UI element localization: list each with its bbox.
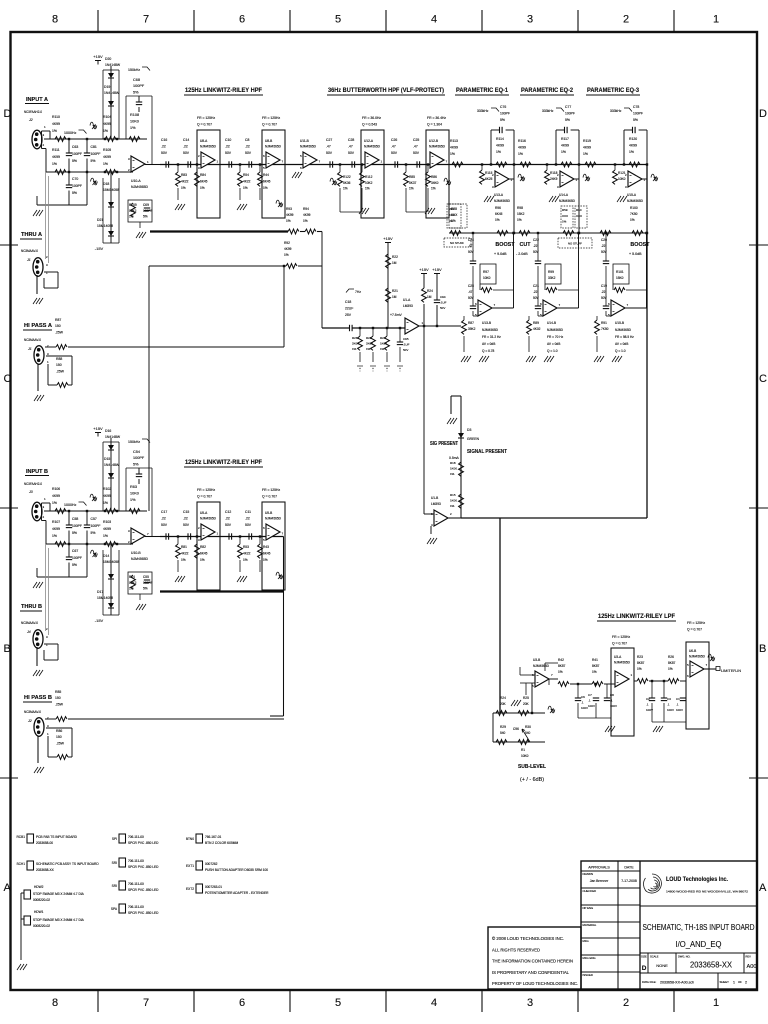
svg-text:1%: 1% — [630, 218, 635, 222]
svg-text:R96: R96 — [495, 206, 501, 210]
ground — [34, 767, 44, 773]
svg-text:AV = 0dB: AV = 0dB — [615, 342, 628, 346]
svg-text:.22: .22 — [245, 144, 250, 148]
svg-text:4K99: 4K99 — [561, 143, 569, 147]
svg-text:FR = 125Hz: FR = 125Hz — [612, 635, 630, 639]
svg-text:7: 7 — [143, 14, 149, 26]
svg-text:CUT: CUT — [519, 242, 531, 248]
svg-text:R25: R25 — [523, 696, 529, 700]
svg-text:1%: 1% — [103, 534, 108, 538]
ground — [33, 298, 43, 304]
svg-text:R107: R107 — [52, 520, 60, 524]
svg-text:.1: .1 — [588, 698, 591, 702]
svg-text:R94: R94 — [303, 207, 309, 211]
svg-text:34K0: 34K0 — [431, 181, 439, 185]
svg-text:1N4148W: 1N4148W — [104, 463, 120, 467]
XLR connector THRU B — [33, 630, 43, 649]
ground — [526, 356, 536, 362]
svg-text:3: 3 — [527, 997, 533, 1009]
grid ticks left/right — [0, 244, 18, 246]
stage wires — [340, 211, 361, 213]
svg-text:1K00: 1K00 — [450, 467, 457, 471]
ground — [136, 232, 146, 238]
svg-text:8K87: 8K87 — [637, 661, 645, 665]
ground — [33, 210, 43, 216]
svg-text:1%: 1% — [450, 504, 455, 508]
svg-text:C14: C14 — [183, 138, 189, 142]
svg-text:1%: 1% — [130, 126, 136, 130]
svg-text:100PF: 100PF — [72, 524, 82, 528]
svg-text:R97: R97 — [483, 270, 489, 274]
svg-text:100PF: 100PF — [143, 209, 152, 213]
svg-text:.22: .22 — [183, 144, 188, 148]
LPF output — [704, 668, 716, 670]
svg-text:+7.5mV: +7.5mV — [390, 313, 403, 317]
svg-text:R122: R122 — [343, 175, 351, 179]
svg-text:4K99: 4K99 — [52, 155, 60, 159]
resistor R21 — [386, 288, 391, 302]
svg-text:C: C — [759, 373, 767, 385]
svg-text:NC3MAAV-0: NC3MAAV-0 — [24, 710, 41, 714]
svg-text:J2: J2 — [28, 118, 33, 122]
svg-text:C2: C2 — [646, 697, 650, 701]
XLR connector HI PASS A — [34, 346, 44, 365]
svg-text:NC3FAAH2-0: NC3FAAH2-0 — [24, 482, 42, 486]
svg-text:20K: 20K — [500, 702, 507, 706]
svg-text:U13-B: U13-B — [482, 321, 491, 325]
svg-text:10K2: 10K2 — [365, 181, 373, 185]
svg-text:NC3FAAH2-0: NC3FAAH2-0 — [24, 110, 42, 114]
ground — [136, 604, 146, 610]
svg-text:R1: R1 — [521, 748, 525, 752]
logo box line — [640, 905, 757, 907]
svg-text:THRU B: THRU B — [21, 604, 42, 610]
svg-text:BTN 2 COLOR 6X5MM: BTN 2 COLOR 6X5MM — [205, 841, 238, 845]
svg-text:4K99: 4K99 — [103, 122, 111, 126]
svg-text:2K00: 2K00 — [366, 342, 373, 346]
XLR connector HI PASS B — [34, 718, 44, 737]
svg-text:36Hz BUTTERWORTH HPF (VLF-PRO: 36Hz BUTTERWORTH HPF (VLF-PROTECT) — [328, 87, 444, 94]
resistor R89 — [527, 320, 532, 334]
svg-text:4K99: 4K99 — [52, 494, 60, 498]
svg-text:1: 1 — [713, 14, 719, 26]
svg-text:5K36: 5K36 — [343, 181, 351, 185]
svg-text:.47: .47 — [468, 244, 473, 248]
svg-text:R15: R15 — [450, 493, 456, 497]
svg-text:2K00: 2K00 — [352, 342, 359, 346]
svg-text:C58: C58 — [72, 517, 78, 521]
svg-text:XXX: XXX — [449, 213, 455, 217]
svg-text:U8-B: U8-B — [265, 139, 272, 143]
sine symbol — [90, 122, 97, 129]
svg-text:1%: 1% — [629, 150, 634, 154]
svg-text:6K25: 6K25 — [485, 177, 493, 181]
svg-text:NJM4565D: NJM4565D — [265, 517, 282, 521]
resistor R118 — [545, 170, 550, 184]
wire main row B — [160, 536, 284, 538]
resistor R26 — [358, 336, 363, 350]
ground — [33, 670, 43, 676]
feedback box 36Hz stage 1 — [361, 130, 384, 218]
svg-text:R89: R89 — [533, 321, 539, 325]
thru ground loop — [44, 643, 58, 645]
svg-text:125Hz LINKWITZ-RILEY HPF: 125Hz LINKWITZ-RILEY HPF — [185, 87, 262, 94]
svg-text:4: 4 — [431, 14, 437, 26]
svg-text:SIG PRESENT: SIG PRESENT — [430, 441, 458, 447]
svg-text:D14: D14 — [103, 554, 109, 558]
size/scale/dwg row — [640, 952, 757, 954]
capacitor C3 — [661, 697, 667, 699]
grounds — [357, 365, 363, 367]
svg-text:R59: R59 — [562, 208, 568, 212]
svg-text:NJM4565D: NJM4565D — [131, 185, 149, 189]
svg-text:5%: 5% — [633, 118, 638, 122]
svg-text:2033658-XX: 2033658-XX — [690, 961, 732, 970]
svg-text:FR = 36.4Hz: FR = 36.4Hz — [427, 116, 446, 120]
LOUD Technologies logo — [644, 874, 662, 893]
svg-text:5%: 5% — [72, 159, 77, 163]
svg-text:Q = 0.543: Q = 0.543 — [362, 123, 377, 127]
svg-text:R43: R43 — [263, 545, 269, 549]
svg-text:1M: 1M — [427, 295, 432, 299]
thru ground loop — [44, 271, 58, 273]
svg-text:5%: 5% — [143, 215, 148, 219]
svg-text:33K2: 33K2 — [548, 276, 556, 280]
svg-text:R27: R27 — [380, 336, 386, 340]
svg-text:NJM4565D: NJM4565D — [614, 661, 631, 665]
svg-text:C76: C76 — [500, 105, 506, 109]
svg-text:100PF: 100PF — [72, 556, 82, 560]
ground — [479, 356, 489, 362]
svg-text:.22: .22 — [533, 244, 538, 248]
wire vertical to detector — [321, 232, 323, 329]
svg-text:LM393: LM393 — [403, 304, 413, 308]
svg-text:C8: C8 — [245, 138, 249, 142]
svg-text:100V: 100V — [581, 706, 588, 710]
svg-text:D17: D17 — [97, 590, 103, 594]
svg-text:15K2: 15K2 — [517, 212, 525, 216]
svg-text:MATERIAL: MATERIAL — [583, 923, 597, 927]
svg-text:U6-B: U6-B — [689, 649, 696, 653]
svg-text:1%: 1% — [200, 186, 205, 190]
svg-text:Q = 1.0: Q = 1.0 — [547, 349, 558, 353]
svg-text:DWG FILE:: DWG FILE: — [642, 980, 657, 984]
svg-text:NJM4565D: NJM4565D — [200, 517, 217, 521]
svg-text:5%: 5% — [72, 563, 77, 567]
wire input rows — [41, 131, 43, 149]
svg-text:.22: .22 — [533, 290, 538, 294]
svg-text:SPA: SPA — [111, 907, 118, 911]
svg-text:C25: C25 — [413, 138, 419, 142]
svg-text:DWG. NO.: DWG. NO. — [678, 955, 691, 959]
svg-text:10K0: 10K0 — [130, 491, 139, 495]
svg-text:1%: 1% — [129, 215, 134, 219]
svg-text:FR = 125Hz: FR = 125Hz — [262, 116, 280, 120]
svg-text:LOUD Technologies Inc.: LOUD Technologies Inc. — [666, 876, 728, 883]
svg-text:ISSUED: ISSUED — [583, 973, 593, 977]
svg-text:C1: C1 — [676, 697, 680, 701]
svg-text:C16: C16 — [161, 138, 167, 142]
svg-text:Q = 0.707: Q = 0.707 — [262, 123, 277, 127]
svg-text:R120: R120 — [629, 137, 637, 141]
svg-text:4K99: 4K99 — [103, 155, 111, 159]
svg-text:HI PASS A: HI PASS A — [24, 323, 53, 329]
svg-text:4K99: 4K99 — [629, 143, 637, 147]
svg-text:LIMITER-IN: LIMITER-IN — [721, 669, 741, 673]
svg-text:EXT2: EXT2 — [186, 887, 194, 891]
svg-text:50V: 50V — [326, 151, 333, 155]
svg-text:.1: .1 — [667, 702, 670, 706]
resistor R85 — [405, 163, 407, 165]
wire comparator threshold down — [423, 326, 425, 514]
svg-text:NJM4565D: NJM4565D — [300, 145, 317, 149]
svg-text:7-17-2008: 7-17-2008 — [621, 879, 637, 883]
svg-text:4K02: 4K02 — [533, 327, 541, 331]
svg-text:4K99: 4K99 — [103, 527, 111, 531]
svg-text:50V: 50V — [413, 151, 420, 155]
svg-text:R87: R87 — [468, 321, 474, 325]
svg-text:U3-A: U3-A — [614, 655, 622, 659]
svg-text:50V: 50V — [440, 306, 445, 310]
ground — [34, 395, 44, 401]
svg-text:1000Hz: 1000Hz — [64, 131, 77, 135]
svg-text:.47: .47 — [348, 144, 353, 148]
svg-text:10K0: 10K0 — [483, 276, 491, 280]
7Hz marker / capacitor C18 — [346, 289, 354, 293]
svg-text:.22: .22 — [183, 516, 188, 520]
svg-text:Q = 0.78: Q = 0.78 — [482, 349, 495, 353]
svg-text:J1: J1 — [26, 258, 31, 262]
svg-text:R41: R41 — [592, 658, 598, 662]
svg-text:SCALE: SCALE — [650, 955, 659, 959]
svg-text:.22: .22 — [161, 144, 166, 148]
svg-text:4K99: 4K99 — [103, 494, 111, 498]
svg-text:J1: J1 — [27, 347, 32, 351]
sine symbol — [276, 572, 283, 579]
svg-text:IS PROPRIETARY AND CONFIDENTIA: IS PROPRIETARY AND CONFIDENTIAL — [492, 970, 569, 975]
svg-text:NJM4565D: NJM4565D — [559, 199, 576, 203]
capacitor C95 — [397, 341, 403, 343]
sine symbol — [90, 494, 97, 501]
svg-text:CHECKED: CHECKED — [583, 889, 597, 893]
svg-text:U14-A: U14-A — [559, 193, 569, 197]
svg-text:24K9: 24K9 — [550, 177, 558, 181]
svg-text:100PF: 100PF — [633, 111, 643, 115]
svg-text:R23: R23 — [637, 655, 643, 659]
svg-text:100V: 100V — [667, 708, 674, 712]
svg-text:B: B — [759, 643, 766, 655]
ground — [461, 356, 471, 362]
svg-text:+15V: +15V — [93, 54, 103, 59]
svg-text:C6: C6 — [581, 695, 585, 699]
svg-text:6K45: 6K45 — [263, 552, 271, 556]
no-stuff resistors EQ1 left — [444, 238, 471, 247]
sine symbol — [444, 178, 451, 185]
svg-text:50V: 50V — [601, 250, 608, 254]
resistor R18 — [459, 462, 464, 476]
svg-text:R24: R24 — [427, 289, 433, 293]
detector input wire — [322, 327, 349, 329]
resistor R27 — [385, 336, 390, 350]
svg-text:5%: 5% — [500, 118, 505, 122]
svg-text:C18: C18 — [345, 300, 351, 304]
svg-text:R81: R81 — [181, 545, 187, 549]
svg-text:50V: 50V — [391, 151, 398, 155]
svg-text:7Hz: 7Hz — [355, 290, 361, 294]
svg-text:.1: .1 — [676, 702, 679, 706]
svg-text:1%: 1% — [103, 162, 108, 166]
svg-text:125Hz LINKWITZ-RILEY HPF: 125Hz LINKWITZ-RILEY HPF — [185, 459, 262, 466]
svg-text:706-111-00: 706-111-00 — [128, 905, 144, 909]
svg-text:R85: R85 — [55, 690, 61, 694]
svg-text:U11-B: U11-B — [300, 139, 309, 143]
svg-text:7K50: 7K50 — [601, 327, 609, 331]
svg-text:6K45: 6K45 — [263, 180, 271, 184]
svg-text:R111: R111 — [52, 148, 60, 152]
sine symbol — [276, 200, 283, 207]
svg-text:5%: 5% — [143, 587, 148, 591]
svg-text:1%: 1% — [263, 558, 268, 562]
resistor R82 — [195, 544, 200, 558]
svg-text:SPCR PVC .850 LED: SPCR PVC .850 LED — [128, 911, 159, 915]
ground — [653, 726, 663, 732]
svg-text:1%: 1% — [263, 186, 268, 190]
svg-text:4K99: 4K99 — [52, 122, 60, 126]
junction dots — [359, 327, 361, 329]
op-amp U10-B — [131, 528, 145, 544]
svg-text:5%: 5% — [133, 90, 139, 94]
svg-text:U5-A: U5-A — [200, 511, 208, 515]
op-amp U10-A — [131, 156, 145, 172]
svg-text:U13-A: U13-A — [494, 193, 504, 197]
svg-text:C78: C78 — [633, 105, 639, 109]
svg-text:AV = 0dB: AV = 0dB — [482, 342, 495, 346]
ground — [617, 196, 627, 202]
svg-text:STOP SWAGE M3 X 24MM 4.7 DIA: STOP SWAGE M3 X 24MM 4.7 DIA — [33, 892, 85, 896]
svg-text:0.5mA: 0.5mA — [449, 456, 460, 460]
svg-text:NO STUFF: NO STUFF — [568, 242, 582, 246]
svg-text:+15V: +15V — [432, 267, 442, 272]
svg-text:SUB-LEVEL: SUB-LEVEL — [518, 764, 547, 770]
svg-text:U8-A: U8-A — [200, 139, 208, 143]
svg-text:DATE: DATE — [624, 866, 634, 870]
svg-text:2033658-XX-A00.sch: 2033658-XX-A00.sch — [660, 981, 694, 985]
svg-text:© 2008 LOUD TECHNOLOGIES INC.: © 2008 LOUD TECHNOLOGIES INC. — [492, 935, 564, 941]
svg-text:Q = 0.707: Q = 0.707 — [687, 628, 702, 632]
op-amp U13-A — [495, 171, 509, 187]
svg-text:4K99: 4K99 — [284, 247, 292, 251]
svg-text:BOOST: BOOST — [495, 242, 515, 248]
svg-text:R86: R86 — [431, 175, 437, 179]
svg-text:SRI: SRI — [112, 861, 117, 865]
svg-text:50V: 50V — [403, 348, 408, 352]
svg-text:D: D — [4, 108, 12, 120]
svg-text:A00: A00 — [747, 964, 757, 970]
svg-text:R104: R104 — [103, 115, 111, 119]
svg-text:C55: C55 — [143, 575, 149, 579]
svg-text:SCH1: SCH1 — [16, 862, 25, 866]
svg-text:22UF: 22UF — [345, 306, 353, 310]
svg-text:.22: .22 — [245, 516, 250, 520]
resistor R121 — [613, 170, 618, 184]
svg-text:R112: R112 — [365, 175, 373, 179]
svg-text:C57: C57 — [91, 517, 97, 521]
svg-text:4: 4 — [431, 997, 437, 1009]
svg-text:SPCR PVC .850 LED: SPCR PVC .850 LED — [128, 888, 159, 892]
svg-text:1%: 1% — [561, 150, 566, 154]
sum resistors R29/R30 — [493, 741, 545, 743]
ground — [605, 726, 615, 732]
svg-text:NC3MAAV-0: NC3MAAV-0 — [21, 249, 38, 253]
svg-text:C70: C70 — [72, 177, 78, 181]
svg-text:1%: 1% — [409, 187, 414, 191]
sine symbol — [548, 706, 555, 713]
svg-text:PUSH BUTTON ADAPTER D6035 SRM: PUSH BUTTON ADAPTER D6035 SRM 100 — [205, 868, 268, 872]
resistor R99 feedback — [545, 264, 561, 284]
ground — [237, 204, 247, 210]
svg-text:Q = 0.707: Q = 0.707 — [197, 123, 212, 127]
svg-text:J4: J4 — [26, 630, 31, 634]
svg-text:R116: R116 — [518, 139, 526, 143]
svg-text:C63: C63 — [72, 145, 78, 149]
svg-text:INPUT B: INPUT B — [26, 469, 48, 475]
svg-text:SCHEMATIC PCB ASSY TS INPUT BO: SCHEMATIC PCB ASSY TS INPUT BOARD — [36, 862, 99, 866]
ground — [237, 576, 247, 582]
resistor R115 — [480, 170, 485, 184]
op-amp U14-B — [543, 300, 557, 316]
sine symbol 2 — [91, 178, 98, 185]
svg-text:FR = 98.5 Hz: FR = 98.5 Hz — [615, 335, 634, 339]
svg-text:U14-B: U14-B — [547, 321, 556, 325]
hi pass feed wire — [68, 718, 284, 720]
svg-text:MFG: MFG — [583, 939, 589, 943]
resistor R43 — [258, 544, 263, 558]
svg-text:R99: R99 — [548, 270, 554, 274]
svg-text:1%: 1% — [449, 219, 454, 223]
svg-text:.47: .47 — [326, 144, 331, 148]
capacitor C6 — [575, 697, 581, 699]
svg-text:100PF: 100PF — [133, 456, 145, 460]
svg-text:50V: 50V — [348, 151, 355, 155]
EQ output vertical — [646, 233, 648, 308]
svg-text:NONE: NONE — [656, 963, 668, 968]
svg-text:1M: 1M — [392, 295, 397, 299]
svg-text:NJM4565D: NJM4565D — [131, 557, 149, 561]
svg-text:R82: R82 — [200, 545, 206, 549]
svg-text:1N4148W: 1N4148W — [105, 63, 121, 67]
resistor R84 — [195, 172, 200, 186]
feedback wire bottom — [578, 717, 611, 719]
ground — [484, 196, 494, 202]
svg-text:.1: .1 — [581, 700, 584, 704]
svg-text:C12: C12 — [225, 510, 231, 514]
svg-text:PARAMETRIC EQ-2: PARAMETRIC EQ-2 — [521, 87, 574, 94]
resistor R64 / capacitor C55 feedback — [128, 572, 152, 594]
svg-text:R87: R87 — [55, 318, 61, 322]
op-amp U6-B — [690, 661, 704, 677]
svg-text:2: 2 — [623, 997, 629, 1009]
svg-text:1%: 1% — [129, 587, 134, 591]
svg-text:R103: R103 — [103, 520, 111, 524]
svg-text:8K87: 8K87 — [592, 664, 600, 668]
capacitor C1 — [680, 697, 686, 699]
svg-text:333kHz: 333kHz — [542, 109, 554, 113]
svg-text:.25W: .25W — [55, 702, 64, 706]
svg-text:R101: R101 — [616, 270, 624, 274]
wire into U3-A box — [604, 683, 615, 685]
svg-text:U10-B: U10-B — [131, 551, 141, 555]
svg-text:1%: 1% — [52, 501, 57, 505]
